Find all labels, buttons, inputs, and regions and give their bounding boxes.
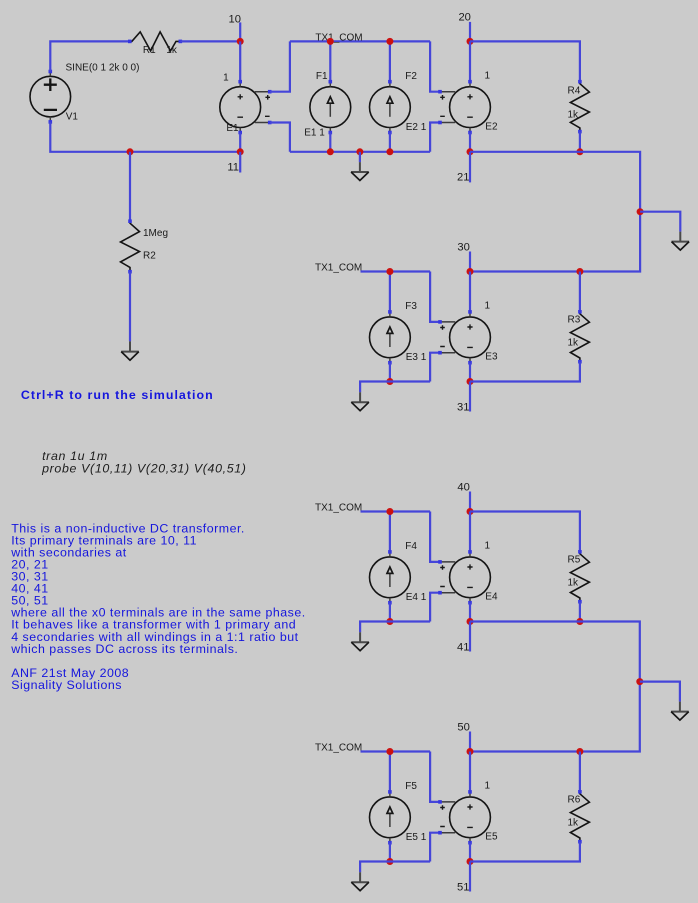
svg-text:10: 10 bbox=[229, 14, 241, 26]
wire rail to F2 bbox=[389, 41, 391, 81]
junction R4 bottom bbox=[576, 148, 583, 155]
op e-source E3 bbox=[438, 310, 490, 364]
wire node 20 to E2 top bbox=[469, 41, 471, 81]
junction node 30 bbox=[467, 268, 474, 275]
svg-text:TX1_COM: TX1_COM bbox=[315, 743, 362, 754]
junction F3 bottom bbox=[386, 378, 393, 385]
svg-text:E1 1: E1 1 bbox=[304, 128, 325, 139]
junction ground riser 2 bbox=[636, 678, 643, 685]
svg-text:F3: F3 bbox=[405, 301, 417, 312]
resistor R6 bbox=[570, 790, 589, 844]
wire node 50 to E5 top bbox=[469, 752, 471, 792]
svg-text:TX1_COM: TX1_COM bbox=[315, 503, 362, 514]
wire E3 bottom to node 31 bbox=[469, 363, 471, 382]
wire E1 bottom to rail bbox=[239, 133, 241, 152]
junction F1 top bbox=[327, 38, 334, 45]
svg-text:R1: R1 bbox=[143, 45, 156, 56]
node 30 stub wire bbox=[469, 252, 471, 272]
wire TX1_COM to E3 ctrl+ bbox=[430, 272, 440, 322]
wire riser to ground 2 bbox=[640, 212, 680, 232]
wire node 20 rail to R4 bbox=[470, 41, 580, 81]
node 21 stub wire bbox=[469, 152, 471, 183]
junction F2 top bbox=[386, 38, 393, 45]
node 51 stub wire bbox=[469, 862, 471, 892]
wire F2 bottom to rail bbox=[389, 133, 391, 152]
svg-text:30: 30 bbox=[457, 241, 469, 253]
junction node 41 bbox=[467, 618, 474, 625]
wire E4 bottom to node 41 bbox=[469, 603, 471, 622]
node 10 stub wire bbox=[239, 22, 241, 41]
junction R6 top bbox=[576, 748, 583, 755]
wire R4 bottom to rail bbox=[579, 132, 581, 152]
resistor R2 bbox=[121, 219, 140, 273]
wire V1 top to R1 bbox=[50, 41, 130, 71]
wire node 10 to E1 top bbox=[239, 41, 241, 81]
current source F4 bbox=[370, 550, 411, 604]
wire node 40 rail to R5 bbox=[470, 512, 580, 552]
svg-text:TX1_COM: TX1_COM bbox=[315, 32, 362, 43]
svg-text:1: 1 bbox=[485, 71, 491, 82]
svg-text:1: 1 bbox=[485, 301, 491, 312]
wire E3 ctrl- to ground rail bbox=[430, 353, 440, 382]
wire ground rail section 5 bbox=[360, 862, 430, 873]
junction R2 tap bbox=[127, 148, 134, 155]
resistor R3 bbox=[570, 310, 589, 364]
svg-text:probe V(10,11) V(20,31) V(40,5: probe V(10,11) V(20,31) V(40,51) bbox=[41, 461, 246, 475]
svg-text:R2: R2 bbox=[143, 250, 156, 261]
junction node 31 bbox=[467, 378, 474, 385]
svg-text:E3: E3 bbox=[485, 352, 498, 363]
wire TX1_COM to E2 ctrl+ bbox=[430, 41, 440, 91]
svg-text:20: 20 bbox=[458, 11, 470, 23]
wire E2 bottom to node 21 bbox=[469, 133, 471, 152]
wire F3 bottom to rail bbox=[389, 363, 391, 382]
svg-text:E4: E4 bbox=[485, 592, 498, 603]
svg-text:E3 1: E3 1 bbox=[406, 352, 427, 363]
wire TX1_COM rail section 5 bbox=[361, 750, 431, 752]
wire R5 bottom to rail bbox=[579, 602, 581, 622]
svg-text:SINE(0 1 2k 0 0): SINE(0 1 2k 0 0) bbox=[66, 63, 140, 74]
node 11 stub wire bbox=[239, 152, 241, 173]
op e-source E5 bbox=[438, 790, 490, 844]
svg-text:R6: R6 bbox=[568, 794, 581, 805]
wire R2 to ground bbox=[129, 272, 131, 342]
wire node 31 rail to R3 bottom bbox=[470, 362, 580, 382]
svg-text:1Meg: 1Meg bbox=[143, 228, 168, 239]
node 40 stub wire bbox=[469, 492, 471, 512]
wire riser to ground 4 bbox=[640, 682, 680, 702]
wire TX1_COM to E5 ctrl+ bbox=[430, 752, 440, 802]
svg-text:E5 1: E5 1 bbox=[406, 832, 427, 843]
current source F2 bbox=[370, 80, 411, 134]
svg-text:E1: E1 bbox=[226, 123, 239, 134]
junction node 21 bbox=[467, 148, 474, 155]
op e-source E1 bbox=[220, 80, 272, 134]
svg-text:F5: F5 bbox=[405, 781, 417, 792]
svg-text:21: 21 bbox=[457, 171, 469, 183]
wire F1 bottom to rail bbox=[329, 133, 331, 152]
ground right of section 2 bbox=[672, 232, 690, 251]
junction node 40 bbox=[467, 508, 474, 515]
wire ground rail section 4 bbox=[360, 622, 430, 633]
svg-text:1: 1 bbox=[485, 541, 491, 552]
wire V1 bottom rail to node 11 bbox=[50, 122, 240, 152]
wire node 41 rail riser to section 5 bbox=[470, 622, 640, 752]
wire R6 top lead bbox=[579, 752, 581, 792]
svg-text:F1: F1 bbox=[316, 71, 328, 82]
wire F5 bottom to rail bbox=[389, 843, 391, 862]
wire E1 ctrl- to ground rail bbox=[270, 123, 290, 152]
wire node 51 rail to R6 bottom bbox=[470, 842, 580, 862]
resistor R1 bbox=[128, 32, 182, 51]
node 50 stub wire bbox=[469, 732, 471, 752]
svg-text:1k: 1k bbox=[166, 45, 178, 56]
svg-text:1k: 1k bbox=[568, 337, 580, 348]
svg-text:R5: R5 bbox=[568, 554, 581, 565]
wire E5 bottom to node 51 bbox=[469, 843, 471, 862]
svg-text:1: 1 bbox=[223, 73, 229, 84]
svg-text:TX1_COM: TX1_COM bbox=[315, 263, 362, 274]
junction node 10 bbox=[237, 38, 244, 45]
junction F4 top bbox=[386, 508, 393, 515]
svg-text:31: 31 bbox=[457, 401, 469, 413]
svg-text:41: 41 bbox=[457, 641, 469, 653]
op e-source E4 bbox=[438, 550, 490, 604]
junction node 51 bbox=[467, 858, 474, 865]
svg-text:F2: F2 bbox=[405, 71, 417, 82]
wire rail to R2 bbox=[129, 152, 131, 221]
wire ground rail left section bbox=[290, 151, 430, 153]
svg-text:1k: 1k bbox=[568, 817, 580, 828]
comment text block bbox=[10, 521, 305, 692]
wire R3 top lead bbox=[579, 272, 581, 312]
ground section 1 bbox=[351, 162, 369, 180]
svg-text:51: 51 bbox=[457, 881, 469, 893]
resistor R5 bbox=[570, 550, 589, 604]
wire TX1_COM rail section 4 bbox=[361, 510, 431, 512]
svg-text:F4: F4 bbox=[405, 541, 417, 552]
svg-text:Ctrl+R to run the simulation: Ctrl+R to run the simulation bbox=[21, 388, 214, 402]
wire E4 ctrl- to ground rail bbox=[430, 593, 440, 622]
resistor R4 bbox=[570, 80, 589, 134]
junction node 20 bbox=[467, 38, 474, 45]
svg-text:E4 1: E4 1 bbox=[406, 592, 427, 603]
svg-text:R4: R4 bbox=[568, 86, 581, 97]
svg-text:40: 40 bbox=[457, 481, 469, 493]
current source F1 bbox=[310, 80, 351, 134]
svg-text:E2 1: E2 1 bbox=[406, 122, 427, 133]
svg-text:V1: V1 bbox=[66, 111, 79, 122]
svg-text:E5: E5 bbox=[485, 832, 498, 843]
wire E1 ctrl+ to TX1_COM rail bbox=[270, 41, 290, 91]
ground under R2 bbox=[121, 341, 139, 360]
wire node 40 to E4 top bbox=[469, 512, 471, 552]
svg-text:1k: 1k bbox=[568, 110, 580, 121]
ground section 4 bbox=[351, 632, 369, 651]
wire TX1_COM rail section 3 bbox=[361, 270, 431, 272]
svg-text:50: 50 bbox=[457, 721, 469, 733]
voltage source V1 bbox=[30, 70, 71, 124]
wire rail to F1 bbox=[329, 41, 331, 81]
svg-text:E2: E2 bbox=[485, 121, 498, 132]
wire ground stub bbox=[359, 152, 361, 162]
junction R3 top bbox=[576, 268, 583, 275]
wire rail to F4 bbox=[389, 512, 391, 553]
wire ground rail section 3 bbox=[360, 382, 430, 393]
wire node 30 to E3 top bbox=[469, 272, 471, 312]
current source F5 bbox=[370, 790, 411, 844]
junction ground riser bbox=[637, 208, 644, 215]
junction ground tap bbox=[356, 148, 363, 155]
wire TX1_COM top rail bbox=[290, 40, 430, 42]
junction R5 bottom bbox=[576, 618, 583, 625]
wire node 21 rail riser to section 3 bbox=[470, 152, 640, 272]
svg-text:which passes DC across its ter: which passes DC across its terminals. bbox=[10, 642, 238, 656]
junction F5 top bbox=[386, 748, 393, 755]
svg-text:1k: 1k bbox=[568, 577, 580, 588]
wire E5 ctrl- to ground rail bbox=[430, 833, 440, 862]
ground section 3 bbox=[351, 392, 369, 411]
op e-source E2 bbox=[438, 80, 490, 134]
ground section 5 bbox=[351, 872, 369, 891]
wire rail to F3 bbox=[389, 272, 391, 313]
svg-text:R3: R3 bbox=[568, 314, 581, 325]
wire R1 to node 10 bbox=[180, 40, 240, 42]
junction node 50 bbox=[467, 748, 474, 755]
junction node 11 bbox=[237, 148, 244, 155]
ground right of section 4 bbox=[671, 702, 689, 721]
junction F4 bottom bbox=[386, 618, 393, 625]
svg-text:11: 11 bbox=[227, 162, 239, 174]
junction F2 bottom bbox=[386, 148, 393, 155]
svg-text:1: 1 bbox=[485, 781, 491, 792]
junction F1 bottom bbox=[327, 148, 334, 155]
node 20 stub wire bbox=[469, 22, 471, 42]
node 31 stub wire bbox=[469, 382, 471, 412]
junction F5 bottom bbox=[386, 858, 393, 865]
current source F3 bbox=[370, 310, 411, 364]
wire TX1_COM to E4 ctrl+ bbox=[430, 512, 440, 562]
wire F4 bottom to rail bbox=[389, 603, 391, 622]
wire rail to F5 bbox=[389, 752, 391, 793]
junction F3 top bbox=[386, 268, 393, 275]
node 41 stub wire bbox=[469, 622, 471, 652]
wire E2 ctrl- to ground rail bbox=[430, 123, 440, 152]
svg-text:Signality Solutions: Signality Solutions bbox=[11, 678, 122, 692]
